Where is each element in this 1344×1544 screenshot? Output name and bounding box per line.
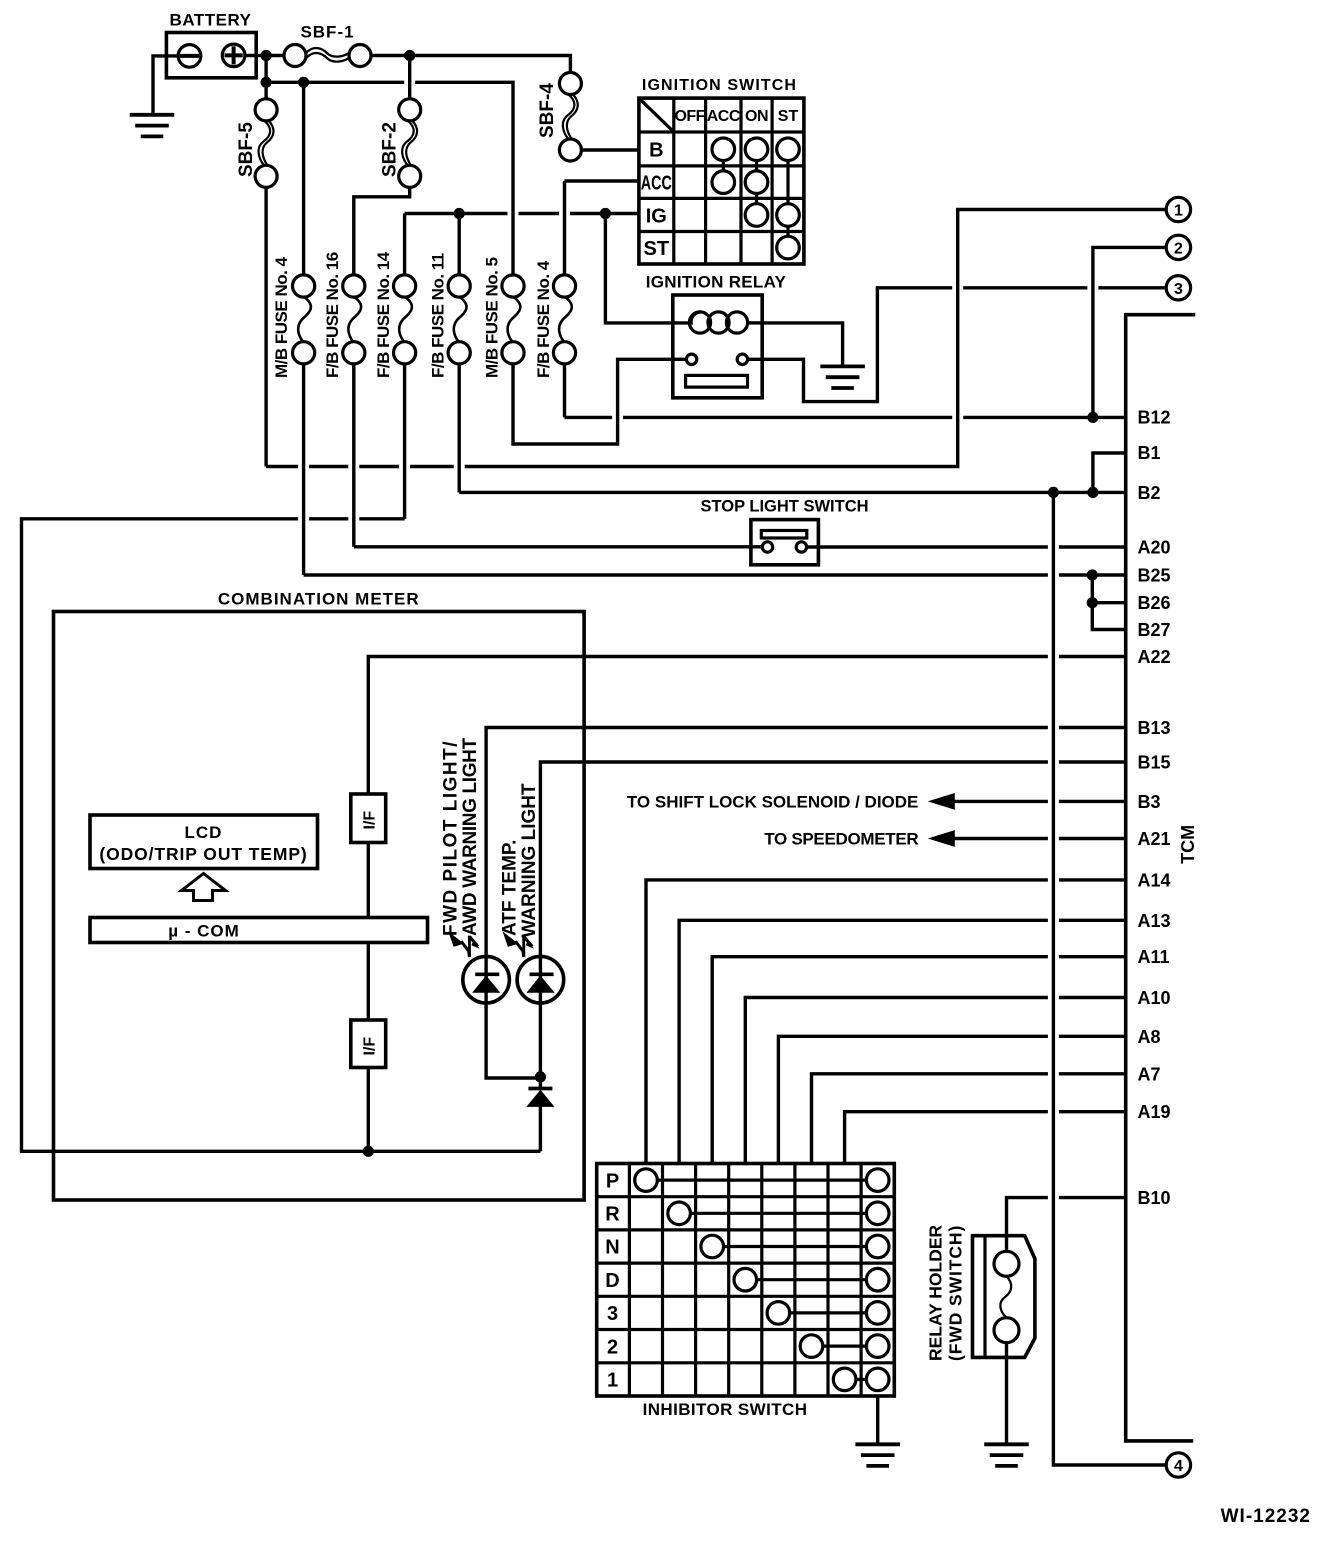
- wire M/B fuse No.4 to TCM B25: [304, 573, 1126, 576]
- ground (ignition relay): [820, 366, 865, 388]
- svg-text:A21: A21: [1138, 829, 1171, 849]
- svg-text:ST: ST: [644, 238, 670, 260]
- svg-text:A8: A8: [1138, 1027, 1161, 1047]
- svg-text:IG: IG: [646, 206, 667, 228]
- ignition switch table: [639, 77, 804, 264]
- svg-text:STOP LIGHT SWITCH: STOP LIGHT SWITCH: [700, 498, 868, 516]
- svg-text:P: P: [606, 1170, 619, 1192]
- svg-text:ACC: ACC: [707, 108, 741, 125]
- svg-text:B13: B13: [1138, 718, 1171, 738]
- wire relay coil to IG junction: [605, 214, 672, 323]
- svg-text:B25: B25: [1138, 566, 1171, 586]
- wire TCM A11 to inhibitor switch N: [712, 957, 1125, 1164]
- svg-text:µ - COM: µ - COM: [168, 922, 240, 941]
- svg-text:4: 4: [1174, 1458, 1183, 1475]
- svg-text:LCD: LCD: [185, 823, 223, 842]
- svg-text:A7: A7: [1138, 1064, 1161, 1084]
- wire second feed rail to M/B fuse No.5 drop: [266, 82, 513, 275]
- svg-text:COMBINATION METER: COMBINATION METER: [218, 590, 420, 609]
- inhibitor switch contacts 2 row: [800, 1335, 889, 1358]
- fusible link SBF-4: [559, 73, 581, 162]
- wire TCM A7 to inhibitor switch 2: [812, 1074, 1126, 1164]
- svg-text:ATF TEMP.: ATF TEMP.: [500, 840, 521, 936]
- fusible link SBF-5: [255, 99, 277, 188]
- fusible link SBF-1: [284, 23, 371, 67]
- inhibitor switch contacts 1 row: [833, 1368, 889, 1391]
- wire TCM A14 to inhibitor switch P: [646, 880, 1126, 1164]
- terminal circle 3: [1166, 276, 1190, 300]
- node B2 / B1 junction: [1087, 487, 1098, 498]
- node IG / F/B fuse No.11 junction: [454, 208, 465, 219]
- arrow LCD to u-COM: [182, 874, 226, 901]
- svg-text:A22: A22: [1138, 647, 1171, 667]
- wire F/B fuse No.16 through stop light switch to TCM A20: [354, 545, 1126, 549]
- u-COM box: [90, 918, 428, 943]
- svg-text:D: D: [605, 1270, 619, 1292]
- svg-text:B3: B3: [1138, 792, 1161, 812]
- lamp arrows (FWD LED): [448, 931, 480, 957]
- svg-text:R: R: [605, 1204, 620, 1226]
- terminal circle 2: [1166, 235, 1190, 259]
- wire M/B fuse No.4 column to B25: [302, 82, 305, 575]
- ignition relay: [646, 273, 787, 398]
- ground (battery): [130, 115, 175, 137]
- stop light switch: [700, 498, 868, 565]
- wire ignition switch IG row: [405, 212, 639, 215]
- lamp arrows (ATF LED): [503, 931, 535, 957]
- node B2 / down-rail junction: [1048, 487, 1059, 498]
- wire battery positive / top feed rail to SBF-4 drop: [245, 56, 571, 73]
- terminal circle 4: [1166, 1453, 1190, 1477]
- svg-text:RELAY HOLDER: RELAY HOLDER: [926, 1225, 946, 1361]
- svg-text:B2: B2: [1138, 483, 1161, 503]
- inhibitor switch contacts D row: [734, 1268, 889, 1291]
- wire F/B fuse No.14 column (IG feed): [403, 214, 406, 519]
- fusible link SBF-2: [399, 99, 421, 188]
- svg-text:I/F: I/F: [362, 1037, 379, 1056]
- wire upper I/F column to TCM A22: [368, 657, 1125, 795]
- svg-text:B1: B1: [1138, 443, 1161, 463]
- arrow to shift lock solenoid: [929, 794, 954, 809]
- wire I/F to u-COM links: [367, 843, 370, 1021]
- svg-text:B12: B12: [1138, 407, 1171, 427]
- wire B26 to B27 link: [1092, 603, 1125, 630]
- fuse F/B FUSE No.14: [394, 275, 416, 364]
- svg-text:A14: A14: [1138, 870, 1171, 890]
- svg-text:SBF-2: SBF-2: [380, 122, 401, 177]
- wire M/B fuse No.5 to ignition relay contact: [513, 359, 686, 444]
- wire battery negative to ground: [153, 56, 178, 115]
- wire TCM B10 to FWD switch relay holder: [1007, 1198, 1126, 1252]
- svg-text:FWD PILOT LIGHT/: FWD PILOT LIGHT/: [441, 740, 462, 936]
- wire F/B fuse No.4 to TCM B12: [565, 416, 1126, 419]
- svg-text:(FWD SWITCH): (FWD SWITCH): [946, 1225, 966, 1361]
- wire inhibitor switch common to ground: [876, 1396, 879, 1444]
- svg-text:SBF-4: SBF-4: [537, 83, 558, 138]
- svg-text:A13: A13: [1138, 911, 1171, 931]
- svg-text:B15: B15: [1138, 753, 1171, 773]
- wire F/B fuse No.14 left rail (illumination feed): [22, 519, 541, 1152]
- wire TCM A19 to inhibitor switch 1: [845, 1112, 1126, 1164]
- svg-text:BATTERY: BATTERY: [170, 11, 252, 30]
- wire SBF-4 to ignition switch B row: [581, 148, 639, 151]
- svg-text:ON: ON: [745, 108, 768, 125]
- svg-text:B26: B26: [1138, 593, 1171, 613]
- svg-text:A20: A20: [1138, 538, 1171, 558]
- inhibitor switch contacts 3 row: [767, 1302, 889, 1325]
- relay holder (FWD switch): [973, 1236, 1035, 1358]
- wire TCM A13 to inhibitor switch R: [679, 920, 1126, 1163]
- svg-text:TO SPEEDOMETER: TO SPEEDOMETER: [764, 830, 918, 849]
- svg-text:I/F: I/F: [362, 811, 379, 830]
- wire SBF-5 to circle 1: [266, 210, 1166, 467]
- svg-text:M/B FUSE No. 4: M/B FUSE No. 4: [272, 256, 291, 378]
- node B25 junction: [1087, 569, 1098, 580]
- wire ATF LED to TCM B15: [540, 762, 1125, 956]
- node B26 junction: [1087, 597, 1098, 608]
- wire relay coil to ground: [762, 323, 842, 367]
- fuse M/B FUSE No.4: [293, 275, 315, 364]
- LED ATF temp warning light: [517, 956, 564, 1003]
- svg-text:B: B: [649, 140, 663, 162]
- svg-text:F/B FUSE No. 16: F/B FUSE No. 16: [323, 252, 342, 378]
- svg-text:3: 3: [607, 1303, 618, 1325]
- svg-text:1: 1: [1174, 203, 1183, 220]
- svg-text:WARNING LIGHT: WARNING LIGHT: [519, 783, 540, 937]
- node rail / I/F junction: [363, 1146, 374, 1157]
- battery: [166, 11, 256, 78]
- svg-text:AWD WARNING LIGHT: AWD WARNING LIGHT: [460, 738, 481, 936]
- svg-text:IGNITION SWITCH: IGNITION SWITCH: [642, 77, 797, 94]
- svg-text:2: 2: [1174, 240, 1183, 257]
- wire TCM A21 to speedometer: [954, 837, 1125, 840]
- svg-text:M/B FUSE No. 5: M/B FUSE No. 5: [483, 257, 502, 378]
- wire F/B fuse No.11 column to B2: [458, 214, 461, 493]
- wire SBF-2 column: [354, 56, 410, 276]
- svg-text:A11: A11: [1138, 947, 1170, 967]
- fuse M/B FUSE No.5: [502, 275, 524, 364]
- inhibitor switch contacts N row: [701, 1235, 889, 1258]
- wire LED cathodes join: [486, 1003, 540, 1078]
- TCM connector edge: [1126, 315, 1196, 1441]
- fuse F/B FUSE No.16: [343, 275, 365, 364]
- svg-text:B10: B10: [1138, 1188, 1171, 1208]
- svg-text:F/B FUSE No. 14: F/B FUSE No. 14: [374, 251, 393, 378]
- svg-text:A10: A10: [1138, 988, 1171, 1008]
- wire TCM A10 to inhibitor switch D: [745, 998, 1125, 1164]
- wire SBF-5 column from battery: [264, 56, 267, 467]
- node second rail left junction: [261, 77, 272, 88]
- wire F/B fuse No.16 column to stop light switch: [352, 364, 355, 547]
- wire TCM B3 to shift lock solenoid: [954, 800, 1125, 803]
- node M/B fuse No.4 junction: [298, 77, 309, 88]
- svg-text:TO SHIFT LOCK SOLENOID / DIODE: TO SHIFT LOCK SOLENOID / DIODE: [627, 793, 919, 812]
- svg-text:3: 3: [1174, 281, 1183, 298]
- svg-text:N: N: [605, 1237, 619, 1259]
- svg-text:F/B FUSE No. 11: F/B FUSE No. 11: [429, 253, 448, 378]
- I/F box (upper): [351, 794, 386, 843]
- ground (relay holder): [984, 1444, 1029, 1466]
- diode (series): [527, 1077, 553, 1151]
- wire TCM A8 to inhibitor switch 3: [778, 1036, 1125, 1163]
- svg-text:SBF-5: SBF-5: [236, 122, 257, 177]
- wire FWD LED to TCM B13: [486, 728, 1126, 957]
- inhibitor switch grid: [597, 1164, 895, 1397]
- wire circle 2 to B12: [1093, 247, 1166, 417]
- wire B25 to B26 link: [1092, 575, 1125, 603]
- svg-text:INHIBITOR SWITCH: INHIBITOR SWITCH: [643, 1400, 808, 1419]
- svg-text:ST: ST: [778, 108, 799, 125]
- node IG / relay coil junction: [600, 208, 611, 219]
- node LED cathode junction: [535, 1071, 546, 1082]
- wire ignition switch ACC row to F/B fuse No.4: [565, 179, 639, 182]
- wire relay holder to ground: [1005, 1343, 1008, 1445]
- inhibitor switch contacts P row: [635, 1169, 889, 1192]
- svg-text:B27: B27: [1138, 620, 1171, 640]
- arrow to speedometer: [929, 831, 954, 846]
- svg-text:(ODO/TRIP OUT TEMP): (ODO/TRIP OUT TEMP): [99, 844, 307, 864]
- inhibitor switch contacts R row: [668, 1202, 889, 1225]
- wire lower I/F to rail: [367, 1068, 370, 1152]
- LCD box: [90, 815, 318, 869]
- svg-text:OFF: OFF: [674, 108, 705, 125]
- I/F box (lower): [351, 1020, 386, 1068]
- node B12 junction: [1087, 412, 1098, 423]
- svg-text:1: 1: [607, 1370, 618, 1392]
- combination meter box: [54, 590, 585, 1201]
- wire F/B fuse No.4 column from ACC: [563, 181, 566, 417]
- svg-text:2: 2: [607, 1336, 618, 1358]
- ground (inhibitor switch): [855, 1444, 900, 1466]
- node SBF-2 top junction: [404, 50, 415, 61]
- svg-text:F/B FUSE No. 4: F/B FUSE No. 4: [534, 260, 553, 378]
- wire relay contact output to circle 3: [748, 288, 1167, 402]
- LED FWD pilot / AWD warning light: [463, 956, 510, 1003]
- wire B2 rail down to circle 4: [1053, 492, 1166, 1465]
- svg-text:ACC: ACC: [641, 171, 673, 194]
- svg-text:IGNITION RELAY: IGNITION RELAY: [646, 273, 787, 292]
- wire TCM B1 link: [1093, 453, 1126, 492]
- svg-text:SBF-1: SBF-1: [300, 23, 354, 42]
- fuse F/B FUSE No.11: [448, 275, 470, 364]
- fuse F/B FUSE No.4: [553, 275, 575, 364]
- svg-text:A19: A19: [1138, 1102, 1171, 1122]
- svg-text:TCM: TCM: [1178, 825, 1198, 864]
- terminal circle 1: [1166, 197, 1190, 221]
- node battery + junction: [261, 50, 272, 61]
- wire F/B fuse No.11 to TCM B2: [459, 491, 1125, 494]
- svg-text:WI-12232: WI-12232: [1221, 1506, 1311, 1527]
